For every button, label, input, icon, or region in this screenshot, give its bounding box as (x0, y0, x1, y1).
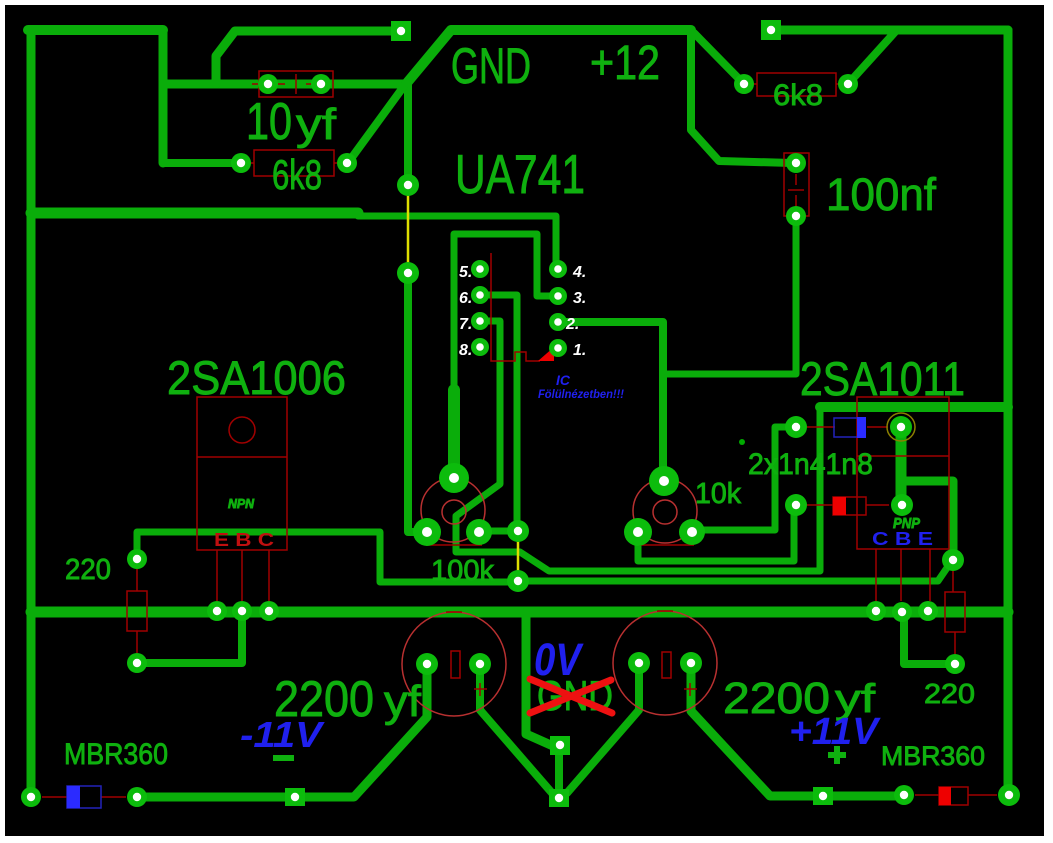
wire: right cap left pad diag to square pad2 (567, 663, 639, 793)
pad: C4 right (680, 652, 702, 674)
capacitor C2 100nf outline (784, 153, 809, 216)
wire: to 6k8L left pad (163, 159, 241, 167)
wire: bar to 220R top pad (903, 481, 953, 556)
svg-text:MBR360: MBR360 (64, 738, 168, 771)
svg-text:6.: 6. (459, 290, 472, 307)
pad: 220L bottom (127, 653, 147, 673)
pad: bus B left (232, 601, 252, 621)
wire: horizontal y213 stub (31, 208, 358, 219)
wire: vertical x163 (159, 30, 168, 163)
wire: right border vertical (1004, 30, 1013, 795)
pad: P2 mid (679, 519, 705, 545)
op-amp U1 outline (491, 253, 540, 361)
wire: left cap right pad diag to square pad2 (480, 664, 552, 793)
svg-text:+12: +12 (590, 37, 660, 90)
wire: branch to GND square pad (216, 31, 395, 84)
blue texts (240, 372, 933, 755)
pad: U1 pin8 (471, 338, 489, 356)
pad: 6k8L right (337, 153, 357, 173)
wire: 6k8R right pad diagonal up (848, 32, 895, 84)
svg-text:2SA1011: 2SA1011 (800, 352, 965, 405)
wire: diagonal from y84 junction to 6k8L right pad (350, 86, 404, 160)
pad: via B (397, 262, 419, 284)
diode D1 1n4148 body (blue) (834, 417, 866, 438)
pad: P2 top (649, 466, 679, 496)
pad: +12 square (761, 20, 781, 40)
svg-text:C B E: C B E (872, 529, 933, 549)
pad: P1 mid (466, 519, 492, 545)
wire: left border vertical (27, 30, 36, 797)
wire: right cap right pad to bottom-right rail (691, 663, 900, 796)
svg-text:UA741: UA741 (455, 143, 585, 205)
transistor Q1 2SA1006 outline (197, 397, 287, 550)
trimmer P2 10k outline (633, 479, 697, 543)
svg-text:E B C: E B C (214, 530, 274, 550)
wire: trimmerL top pad feed (wider) (448, 390, 460, 478)
svg-text:7.: 7. (459, 316, 472, 333)
pad: MBR360R left (894, 785, 914, 805)
wire: top-left horizontal (28, 25, 163, 35)
wire: square pad1 to square pad2 (555, 746, 563, 798)
svg-text:3.: 3. (573, 290, 586, 307)
svg-text:6k8: 6k8 (272, 151, 322, 198)
resistor R1 6k8 left outline (254, 150, 334, 176)
svg-text:10k: 10k (695, 478, 741, 510)
resistor R3 220 left outline (127, 591, 147, 631)
svg-text:2x1n41n8: 2x1n41n8 (748, 448, 873, 481)
trimmer P1 100k outline (421, 478, 485, 542)
svg-text:4.: 4. (572, 264, 586, 281)
wire: trimmerR mid pad to diode1-left (692, 427, 792, 530)
wire: horizontal y84 through 10uf (163, 80, 406, 89)
pad: D2 right (891, 494, 913, 516)
pad: U1 pin2 (549, 313, 567, 331)
pad: 6k8R left (734, 74, 754, 94)
wire: band3 diag from 220R top pad (518, 562, 951, 581)
pad: bus C left (259, 601, 279, 621)
svg-text:+11V: +11V (789, 711, 881, 753)
wire: diagonal y84 to top GND run (406, 30, 691, 84)
pad: P2 left (624, 518, 652, 546)
minus sign (green) under -11V (273, 755, 294, 761)
diode D3 MBR360 left leads (42, 796, 67, 798)
pad: P1 top (439, 463, 469, 493)
resistor R2 6k8 right outline (757, 73, 836, 96)
pad: D1 right (890, 416, 912, 438)
resistor R4 220 right outline (945, 592, 965, 632)
pad: U1 pin6 (471, 286, 489, 304)
pad: U1 pin4 (549, 260, 567, 278)
pad: MBR360R right (998, 784, 1020, 806)
wire: +12 corner down to 100nf top pad (691, 30, 792, 163)
wire: yellow jumper 1 (407, 186, 410, 272)
pad: 220R bottom (945, 654, 965, 674)
wire: corner diagonal to 6k8R left pad (694, 33, 744, 84)
wire: trimmerL mid pad to small pad (479, 528, 518, 535)
wire: 220L bottom pad L to bus (137, 612, 242, 663)
svg-text:yf: yf (296, 100, 337, 149)
pad: MBR360L left (21, 787, 41, 807)
pad: bottom square R (813, 787, 833, 805)
plus sign (green) near +11V (828, 752, 846, 758)
diode D2 1n4148 leads and body (833, 497, 866, 515)
wire: 220R bottom pad L to bus (904, 612, 955, 664)
wire: diode right pads bar (896, 427, 907, 505)
red silkscreen layer (42, 71, 997, 805)
pad: P1 left (413, 518, 441, 546)
polarity plus C3 (474, 688, 487, 690)
wire: bus drop to square pad1 (526, 612, 553, 746)
pad: center square 1 (550, 736, 570, 755)
wire: vertical to via pad (408,185) (404, 84, 412, 185)
diode D1 1n4148 leads (806, 426, 835, 428)
svg-text:2SA1006: 2SA1006 (167, 351, 346, 404)
wire: thin top trace to pin4 (358, 216, 556, 269)
svg-text:220: 220 (924, 678, 975, 709)
pad: 220R top (942, 549, 964, 571)
svg-text:220: 220 (65, 554, 111, 586)
wire: band1 trimmerR-left to diode2-left (638, 508, 794, 561)
wire: pin2 net to trimmerR top (558, 322, 663, 481)
svg-text:-11V: -11V (240, 714, 325, 755)
svg-text:GND: GND (451, 38, 531, 94)
pad: 6k8L left (231, 153, 251, 173)
svg-text:yf: yf (384, 677, 422, 726)
svg-text:5.: 5. (459, 264, 472, 281)
svg-text:1.: 1. (573, 342, 586, 359)
small green dot (739, 439, 745, 445)
pad: center square 2 (549, 789, 569, 807)
pad: C3 right (469, 653, 491, 675)
pad: C3 left (416, 653, 438, 675)
svg-text:8.: 8. (459, 342, 472, 359)
transistor Q2 2SA1011 outline (857, 397, 949, 549)
pad: 6k8R right (838, 74, 858, 94)
wire: y532 horizontal from pad137, drops at x380 to y582 line (137, 532, 516, 582)
capacitor C1 10uf outline (259, 71, 333, 97)
pad: U1 pin1 (549, 339, 567, 357)
GND cross-out X (530, 679, 612, 713)
capacitor C4 2200uf right outline (613, 611, 717, 715)
pad: U1 pin3 (549, 287, 567, 305)
pad: bottom square L (285, 788, 305, 806)
svg-text:Fölülnézetben!!!: Fölülnézetben!!! (538, 387, 624, 401)
svg-text:IC: IC (556, 372, 571, 388)
pad: bus C right (866, 601, 886, 621)
pad: via A (397, 174, 419, 196)
capacitor C3 2200uf left outline (402, 612, 506, 716)
wire: pin6 down to pad (518,531) (480, 295, 517, 527)
diode D4 MBR360 right body red band (939, 787, 951, 805)
diode D3 MBR360 left body (67, 786, 101, 808)
wire: yellow jumper 2 (517, 532, 520, 580)
svg-text:NPN: NPN (228, 496, 255, 511)
pad: U1 pin5 (471, 260, 489, 278)
wire: main bus y612 (31, 607, 1008, 618)
svg-text:2.: 2. (565, 316, 579, 333)
svg-text:6k8: 6k8 (773, 79, 823, 112)
svg-text:100k: 100k (431, 555, 494, 587)
pin number labels (white) (459, 264, 586, 359)
wire: pin7 net down and right (band2) (456, 321, 820, 571)
op-amp U1 pin-1 triangle mark (538, 347, 554, 361)
pad: D2 left (785, 494, 807, 516)
pad: 10uf right (311, 74, 331, 94)
wire: left cap left pad down to bottom rail (141, 664, 427, 797)
pad: C4 left (628, 652, 650, 674)
wire: branch y374 to 100nf bottom (663, 216, 796, 374)
wire: 2SA1011 thick horizontal y407 (820, 402, 1008, 412)
pad: GND square (391, 21, 411, 41)
green silkscreen texts (64, 37, 985, 771)
pad: MBR360L right (127, 787, 147, 807)
wire: pin3 net to trimmerL top (454, 234, 558, 392)
pad: bus E right (918, 601, 938, 621)
diode D4 MBR360 right leads and body (939, 787, 968, 805)
pad: 220L top (127, 549, 147, 569)
svg-text:0V: 0V (534, 634, 584, 685)
wire: via (408,273) down to trimmerL bottom-left (408, 273, 427, 532)
pad: bus B right (892, 602, 912, 622)
pad: bus E left (207, 601, 227, 621)
svg-text:10: 10 (246, 93, 292, 151)
pad: band3 via (507, 570, 529, 592)
polarity plus C4 (684, 688, 697, 690)
pad: 100nf top (786, 153, 806, 173)
svg-text:100nf: 100nf (826, 169, 936, 220)
diode D2 1n4148 body red band (833, 497, 846, 515)
pad: D1 left (785, 416, 807, 438)
pad: P1 aux (507, 520, 529, 542)
pad: U1 pin7 (471, 312, 489, 330)
pad: 10uf left (258, 74, 278, 94)
wire: +12 top run to right border (771, 26, 1008, 35)
pad: 100nf bottom (786, 206, 806, 226)
svg-text:MBR360: MBR360 (881, 741, 985, 771)
